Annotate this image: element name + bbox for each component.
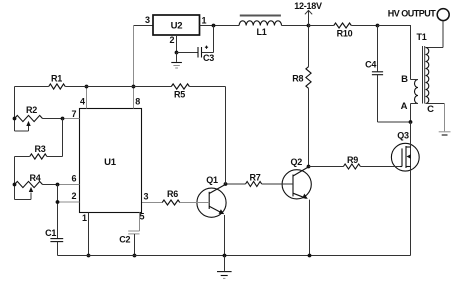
wire T1-B branch vertical bbox=[410, 26, 412, 80]
svg-text:HV OUTPUT: HV OUTPUT bbox=[388, 8, 437, 18]
svg-text:3: 3 bbox=[145, 15, 150, 25]
wire left rail lower bbox=[14, 157, 16, 200]
wire C4 bottom to drain node bbox=[378, 121, 411, 123]
svg-text:R10: R10 bbox=[337, 28, 353, 38]
svg-text:R2: R2 bbox=[26, 105, 37, 115]
svg-text:2: 2 bbox=[169, 35, 174, 45]
wire R10 to HV node bbox=[351, 25, 377, 27]
node U2 pin2 / C3 / ground junction bbox=[175, 51, 179, 55]
transistor Q1 NPN bbox=[197, 188, 226, 217]
potentiometer R4 bbox=[15, 181, 43, 187]
wire T1 terminal B bbox=[411, 79, 419, 81]
ground below T1 terminal C bbox=[444, 104, 446, 132]
svg-text:Q3: Q3 bbox=[397, 130, 409, 140]
wire bottom rail bbox=[58, 255, 411, 257]
node Q1 collector / R5 / R7 junction bbox=[224, 182, 228, 186]
transformer T1 primary winding bbox=[415, 80, 419, 104]
ground at bottom rail bbox=[224, 256, 226, 271]
transformer T1 secondary winding bbox=[426, 48, 429, 104]
node pin4 / supply rail junction bbox=[85, 85, 89, 89]
svg-text:C1: C1 bbox=[45, 228, 56, 238]
resistor R10 bbox=[334, 23, 352, 28]
svg-text:C2: C2 bbox=[119, 235, 130, 245]
wiper R4 bbox=[15, 199, 32, 201]
wire U2 pin2 stem bbox=[176, 35, 178, 53]
resistor R7 bbox=[226, 183, 246, 185]
svg-text:5: 5 bbox=[139, 212, 144, 222]
wire R2-R3 link vertical bbox=[62, 119, 64, 157]
svg-text:L1: L1 bbox=[256, 27, 266, 37]
wire HV terminal to T1 secondary top bbox=[442, 21, 444, 48]
svg-text:Q2: Q2 bbox=[291, 157, 303, 167]
resistor R9 bbox=[309, 166, 344, 168]
wire T1 terminal A bbox=[411, 103, 419, 105]
svg-text:R1: R1 bbox=[51, 73, 62, 83]
wire left rail upper bbox=[14, 87, 16, 132]
wire HV node to T1 B branch corner bbox=[378, 25, 412, 27]
transistor Q2 NPN bbox=[282, 170, 311, 199]
node pin2 / C1 junction bbox=[56, 200, 60, 204]
IC U1 box bbox=[80, 109, 142, 213]
wire top rail from U2 pin3 corner to U2 left edge bbox=[134, 25, 154, 27]
node R1 / R2 junction bbox=[13, 117, 17, 121]
node R2 / R3 / pin7 junction bbox=[61, 117, 65, 121]
node C2 / bottom rail junction bbox=[133, 254, 137, 258]
svg-text:2: 2 bbox=[71, 191, 76, 201]
svg-text:Q1: Q1 bbox=[206, 175, 218, 185]
wire R4 node to pin2 node bbox=[57, 185, 59, 203]
svg-text:T1: T1 bbox=[416, 32, 426, 42]
inductor L1 bbox=[239, 21, 281, 26]
svg-text:1: 1 bbox=[202, 15, 207, 25]
svg-text:12-18V: 12-18V bbox=[294, 1, 322, 11]
node R3 / R4 junction bbox=[13, 183, 17, 187]
svg-text:8: 8 bbox=[135, 97, 140, 107]
node pin8 line / supply rail junction bbox=[132, 85, 136, 89]
svg-text:R5: R5 bbox=[174, 89, 185, 99]
svg-text:C3: C3 bbox=[203, 53, 214, 63]
wire T1 terminal C bbox=[426, 103, 445, 105]
node R4 / pin6 / C1 junction bbox=[56, 183, 60, 187]
svg-text:C4: C4 bbox=[365, 60, 376, 70]
wiper R2 bbox=[15, 130, 29, 132]
U1 pin 6 wire bbox=[58, 184, 80, 186]
wire R5 to Q1 collector vertical bbox=[225, 87, 227, 185]
svg-text:U1: U1 bbox=[104, 157, 117, 168]
svg-text:4: 4 bbox=[80, 97, 85, 107]
resistor R3 bbox=[47, 156, 63, 158]
svg-text:R7: R7 bbox=[249, 172, 260, 182]
wire U2 pin1 to L1 bbox=[200, 25, 239, 27]
svg-text:A: A bbox=[401, 101, 408, 112]
node Q1 emitter / bottom rail junction bbox=[223, 254, 227, 258]
node Q2 emitter / bottom rail junction bbox=[308, 254, 312, 258]
potentiometer R2 bbox=[15, 115, 43, 121]
U2 voltage regulator box bbox=[153, 15, 200, 35]
transformer T1 core bbox=[422, 46, 424, 104]
resistor R1 bbox=[15, 86, 49, 88]
U1 pin 8 stem (from U2 output) bbox=[133, 26, 135, 109]
svg-text:R6: R6 bbox=[167, 189, 178, 199]
node U2 output / C3 junction bbox=[212, 24, 216, 28]
node Q2 collector / R8 / R9 junction bbox=[307, 165, 311, 169]
node C4 / T1-A / Q3 drain junction bbox=[409, 120, 413, 124]
capacitor C2 bbox=[128, 230, 139, 232]
svg-text:3: 3 bbox=[144, 192, 149, 202]
wire supply node to R10 bbox=[309, 25, 334, 27]
terminal HV output circle bbox=[437, 9, 449, 21]
svg-text:6: 6 bbox=[71, 174, 76, 184]
svg-text:1: 1 bbox=[82, 213, 87, 223]
svg-text:B: B bbox=[401, 74, 408, 85]
svg-text:U2: U2 bbox=[171, 21, 183, 32]
svg-text:R4: R4 bbox=[29, 173, 40, 183]
svg-text:7: 7 bbox=[71, 109, 76, 119]
U1 pin 4 stem bbox=[86, 87, 88, 109]
U1 pin 2 wire bbox=[58, 201, 80, 203]
svg-text:R8: R8 bbox=[292, 74, 303, 84]
resistor R6 bbox=[142, 202, 163, 204]
wire Q3 gate bbox=[400, 166, 402, 168]
capacitor C3 bbox=[177, 52, 199, 54]
ground below U2 pin2 bbox=[176, 53, 178, 62]
svg-text:R9: R9 bbox=[347, 155, 358, 165]
U1 pin 7 wire bbox=[63, 118, 80, 120]
node pin1 / bottom rail junction bbox=[87, 254, 91, 258]
U1 pin 5 stem bbox=[139, 213, 141, 232]
node R10 / C4 / T1-B junction bbox=[376, 24, 380, 28]
svg-text:C: C bbox=[427, 104, 434, 115]
node 12-18V supply junction bbox=[307, 24, 311, 28]
resistor R5 bbox=[171, 84, 189, 89]
wire R7 to Q2 base bbox=[262, 183, 293, 185]
capacitor C1 bbox=[57, 202, 59, 238]
resistor R8 bbox=[308, 26, 310, 67]
capacitor C4 bbox=[377, 26, 379, 72]
svg-text:R3: R3 bbox=[34, 144, 45, 154]
transistor Q3 MOSFET bbox=[391, 143, 419, 171]
arrow 12-18V supply bbox=[308, 10, 310, 25]
U1 pin 1 stem bbox=[88, 213, 90, 256]
wire L1 to supply node bbox=[282, 25, 309, 27]
